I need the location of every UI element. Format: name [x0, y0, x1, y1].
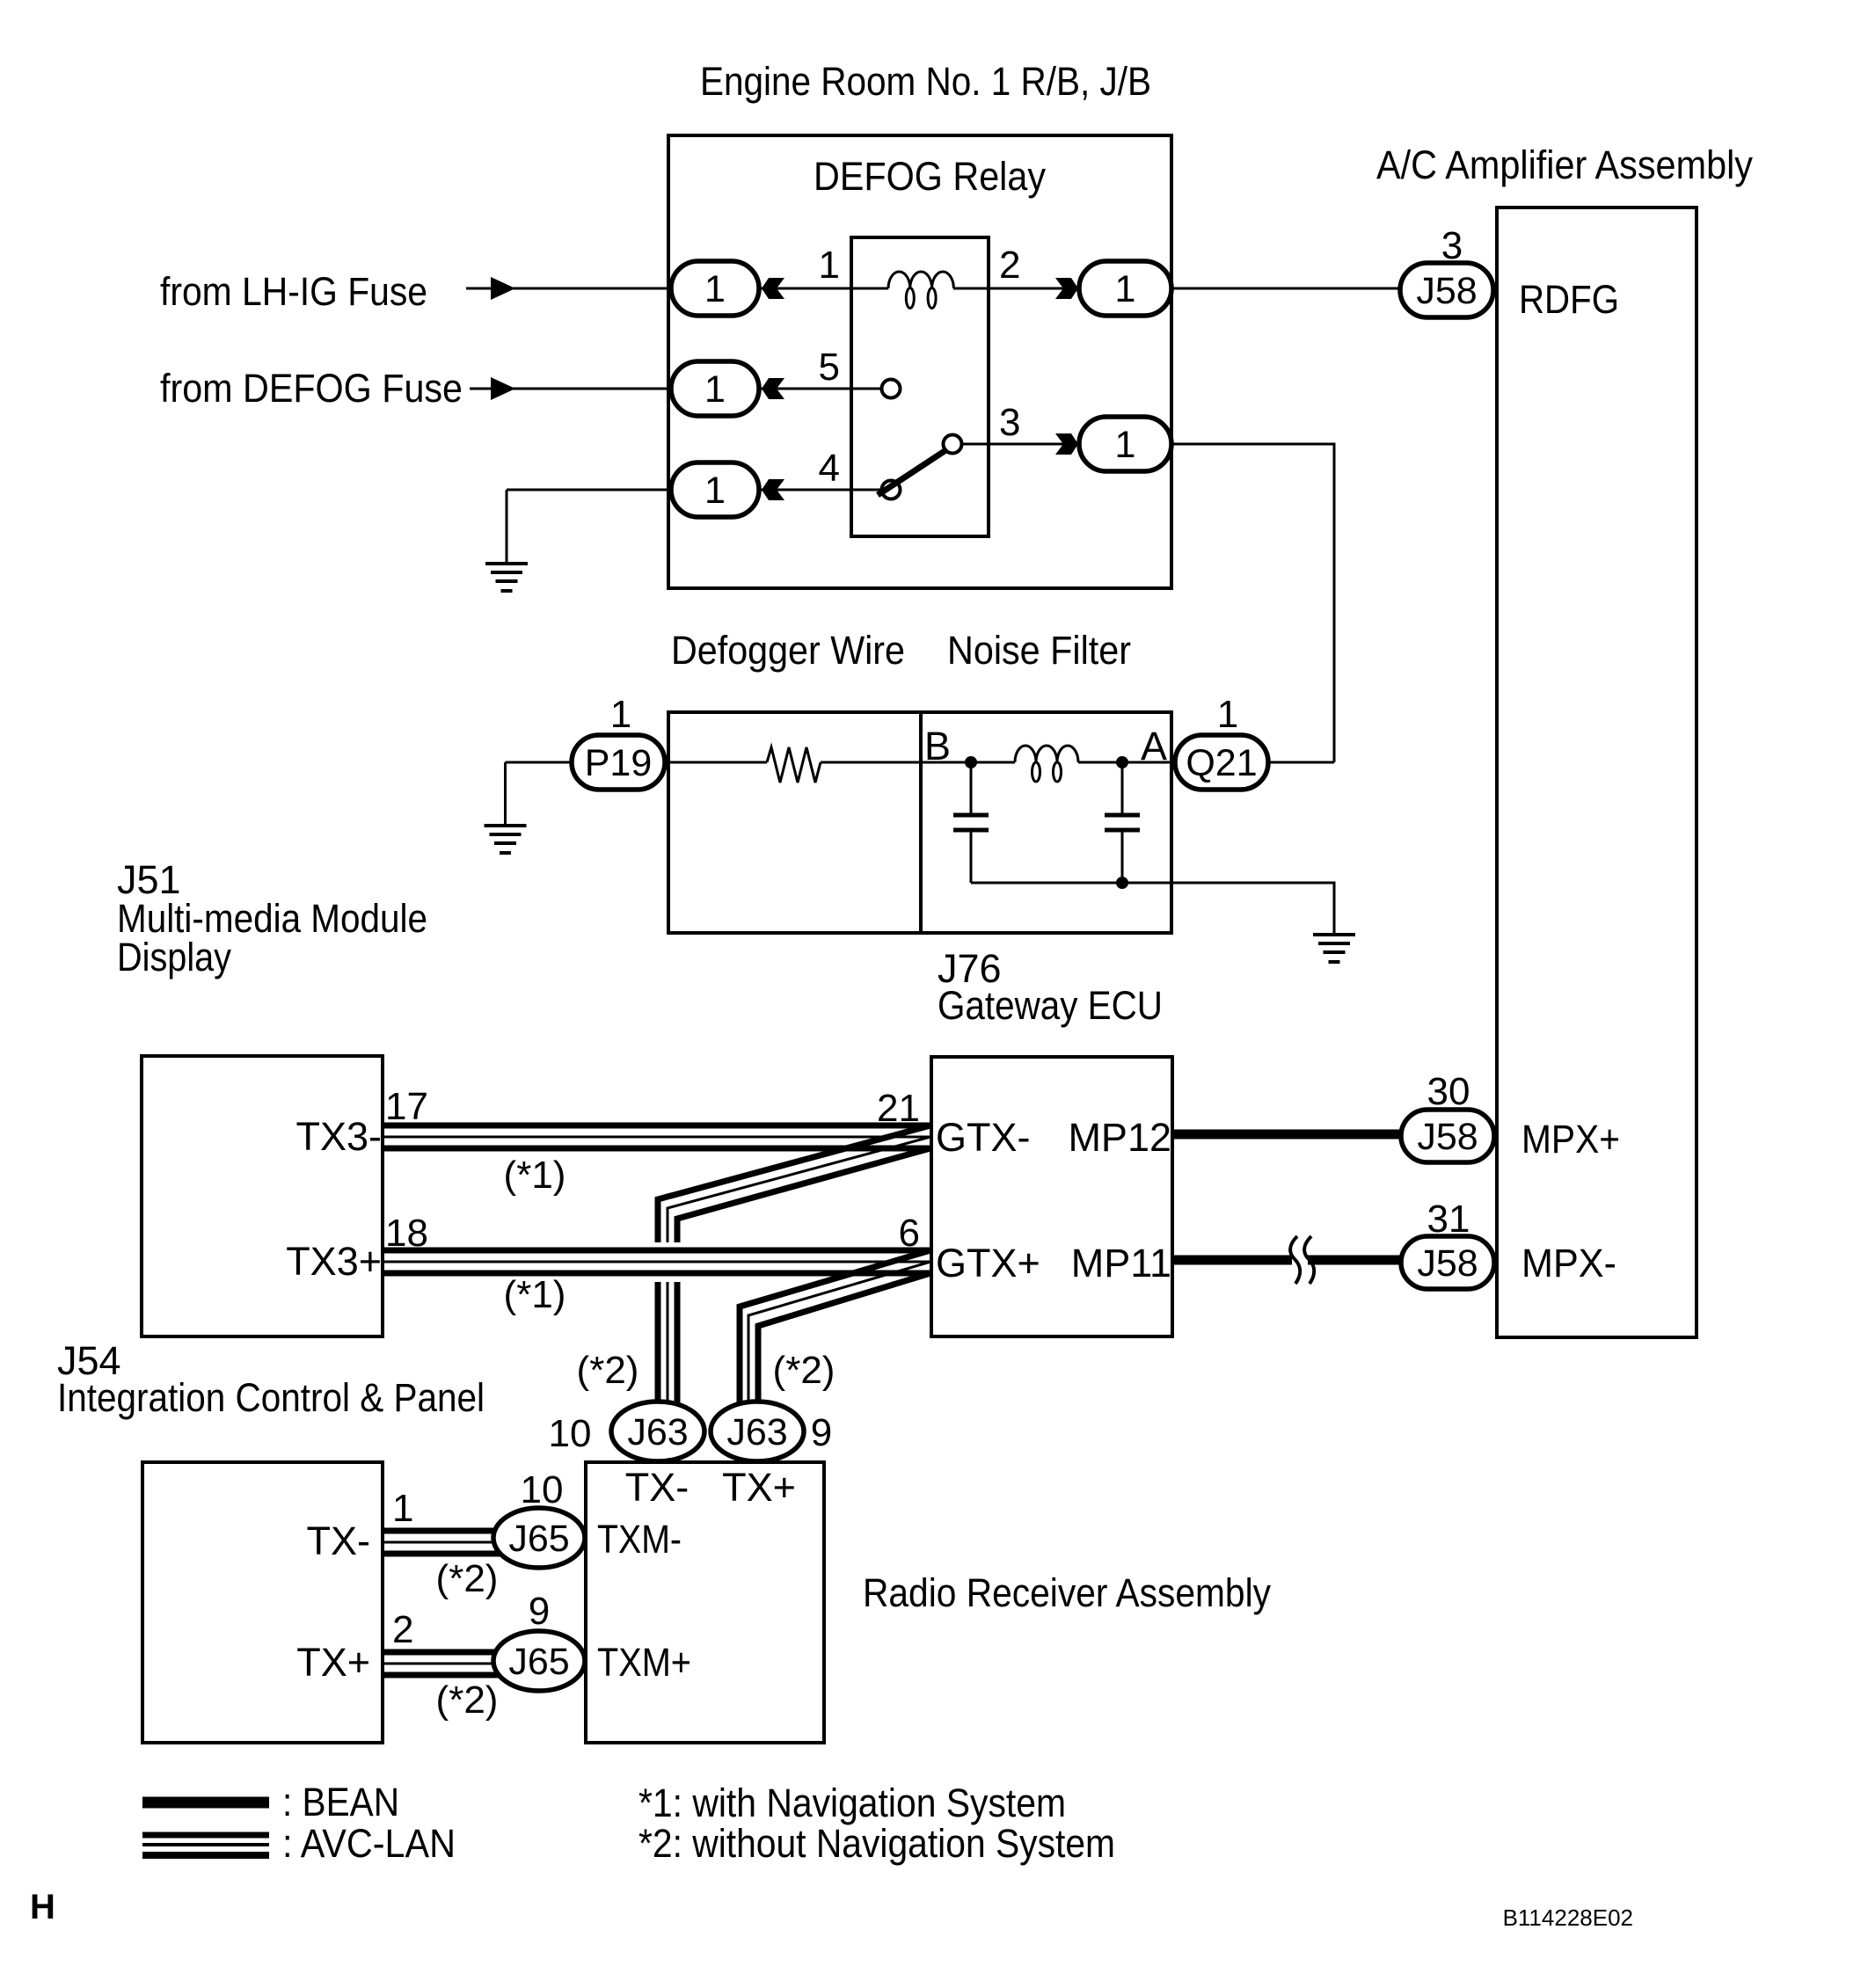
- svg-text:: AVC-LAN: : AVC-LAN: [282, 1821, 456, 1866]
- wire from DEFOG Fuse to relay pin 5 oval: [470, 388, 704, 390]
- bottom wire to ground C: [971, 883, 1334, 935]
- AVC-LAN bundle TX3+ to GTX+: [384, 1250, 930, 1273]
- svg-text:P19: P19: [585, 742, 653, 784]
- svg-text:TX3+: TX3+: [286, 1239, 382, 1284]
- BOXES: [142, 135, 1697, 1743]
- svg-text:Integration Control & Panel: Integration Control & Panel: [57, 1375, 485, 1420]
- junction node A: [1116, 756, 1128, 768]
- wire relay coil row: oval 1 to coil and coil to pin2 oval: [730, 288, 888, 290]
- wire from LH-IG Fuse to relay pin 1 oval: [466, 288, 704, 290]
- svg-text:21: 21: [877, 1087, 920, 1130]
- wire mask over J63 verticals at TX3+ crossing: [642, 1242, 688, 1282]
- svg-text:TX-: TX-: [625, 1465, 690, 1510]
- wire resistor to node B to noise filter coil: [821, 761, 1015, 764]
- svg-text:A/C Amplifier Assembly: A/C Amplifier Assembly: [1376, 142, 1753, 187]
- svg-text:MP11: MP11: [1071, 1241, 1171, 1285]
- AVC-LAN bundle TX+ to J65-9: [384, 1652, 528, 1675]
- wire pin2 oval to J58 RDFG: [1170, 288, 1442, 290]
- connector 1 relay pin1: [671, 261, 759, 316]
- arrow from DEFOG: [491, 377, 515, 400]
- box J51 Multi-media Module Display: [142, 1056, 383, 1336]
- svg-text:(*2): (*2): [436, 1679, 499, 1722]
- capacitor left: [970, 762, 973, 813]
- svg-text:3: 3: [999, 401, 1020, 444]
- wire coil to node A to Q21: [1078, 761, 1184, 764]
- connector 1 relay pin5: [671, 361, 759, 416]
- svg-text:Engine Room No. 1 R/B, J/B: Engine Room No. 1 R/B, J/B: [700, 59, 1151, 104]
- svg-text:(*1): (*1): [504, 1273, 566, 1316]
- wire oval to switch contact 5: [730, 388, 881, 390]
- svg-text:5: 5: [819, 346, 840, 389]
- capacitor right: [1121, 762, 1124, 813]
- connector J58 pin3 RDFG: [1400, 263, 1493, 317]
- relay switch contact pin5: [882, 380, 901, 398]
- ground B below P19: [485, 826, 527, 853]
- svg-text:MPX+: MPX+: [1521, 1117, 1620, 1161]
- svg-text:TX3-: TX3-: [296, 1114, 382, 1159]
- arrow into pin2 oval: [1055, 278, 1078, 299]
- connector 1 relay pin4: [671, 462, 759, 517]
- resistor in defogger wire box: [767, 747, 821, 783]
- svg-text:18: 18: [385, 1212, 428, 1255]
- relay inner coil: [888, 272, 953, 288]
- svg-text:TX+: TX+: [296, 1640, 370, 1685]
- svg-text:B114228E02: B114228E02: [1503, 1904, 1633, 1931]
- svg-text:Noise Filter: Noise Filter: [947, 628, 1131, 673]
- ground A below relay: [485, 564, 528, 591]
- wire pin3 oval right to vertical drop: [1170, 444, 1334, 762]
- wire switch contact 3 to pin3 oval: [961, 443, 1108, 446]
- svg-text:TXM-: TXM-: [597, 1517, 682, 1562]
- svg-text:1: 1: [704, 368, 726, 411]
- CONNECTOR OVALS: [493, 261, 1494, 1691]
- wire P19 left to ground B: [506, 761, 581, 764]
- wire break squiggle: [1290, 1236, 1300, 1284]
- svg-text:J63: J63: [726, 1411, 787, 1453]
- svg-text:Gateway ECU: Gateway ECU: [938, 983, 1163, 1028]
- svg-text:RDFG: RDFG: [1519, 277, 1619, 322]
- arrow from LH-IG: [491, 277, 515, 300]
- svg-text:31: 31: [1427, 1198, 1470, 1241]
- BEAN wire MP11 to J58-31 with break: [1174, 1256, 1292, 1265]
- svg-text:TXM+: TXM+: [597, 1640, 691, 1685]
- junction node B: [965, 756, 977, 768]
- svg-text:1: 1: [704, 268, 726, 310]
- svg-text:J65: J65: [508, 1518, 569, 1560]
- svg-text:B: B: [924, 724, 951, 768]
- svg-text:(*2): (*2): [577, 1349, 639, 1392]
- svg-text:9: 9: [811, 1411, 832, 1454]
- svg-text:10: 10: [521, 1468, 564, 1511]
- svg-text:1: 1: [1115, 268, 1136, 310]
- noise filter coil: [1015, 746, 1078, 762]
- svg-text:MP12: MP12: [1068, 1115, 1171, 1160]
- svg-text:(*2): (*2): [773, 1349, 835, 1392]
- svg-text:10: 10: [549, 1412, 592, 1455]
- svg-text:(*1): (*1): [504, 1154, 566, 1197]
- ground C: [1313, 935, 1355, 962]
- svg-text:J58: J58: [1417, 1242, 1478, 1285]
- svg-text:4: 4: [819, 447, 840, 490]
- AVC-LAN bundle J63-9 to GTX+: [740, 1250, 930, 1419]
- relay switch contact pin4: [882, 481, 901, 499]
- svg-text:Radio Receiver Assembly: Radio Receiver Assembly: [863, 1570, 1271, 1615]
- svg-text:Display: Display: [117, 935, 231, 979]
- svg-text:TX+: TX+: [722, 1465, 796, 1510]
- relay switch arm: [878, 449, 947, 495]
- svg-text:TX-: TX-: [307, 1518, 371, 1563]
- svg-text:2: 2: [999, 244, 1020, 287]
- connector J63 pin10: [611, 1402, 704, 1461]
- connector 1 relay pin2: [1079, 261, 1171, 316]
- box Defogger Wire / Noise Filter (J76): [668, 712, 1171, 933]
- connector J58 pin31: [1401, 1236, 1494, 1289]
- wire Q21 to corner: [1259, 761, 1334, 764]
- box J54 lower: [142, 1462, 383, 1743]
- box Radio Receiver Assembly: [586, 1462, 824, 1743]
- wire P19 to resistor: [656, 761, 767, 764]
- divider defogger/noise: [919, 712, 923, 933]
- AVC-LAN bundle J63-10 to GTX-: [658, 1125, 930, 1419]
- box relay inner: [851, 237, 989, 536]
- svg-text:1: 1: [392, 1487, 413, 1530]
- svg-text:MPX-: MPX-: [1521, 1241, 1616, 1285]
- svg-text:1: 1: [819, 244, 840, 287]
- svg-text:J58: J58: [1416, 270, 1477, 312]
- BEAN wire MP12 to J58-30: [1174, 1130, 1416, 1140]
- svg-text:Q21: Q21: [1186, 742, 1257, 784]
- svg-text:from DEFOG Fuse: from DEFOG Fuse: [160, 366, 463, 411]
- svg-text:(*2): (*2): [436, 1557, 499, 1600]
- connector 1 relay pin3: [1079, 417, 1171, 471]
- svg-text:J65: J65: [508, 1641, 569, 1683]
- connector Q21: [1175, 735, 1268, 790]
- svg-text:J63: J63: [627, 1411, 688, 1453]
- svg-text:17: 17: [385, 1085, 428, 1128]
- svg-text:3: 3: [1441, 224, 1463, 267]
- svg-text:H: H: [30, 1888, 55, 1926]
- svg-text:*2: without Navigation System: *2: without Navigation System: [638, 1821, 1115, 1866]
- svg-text:Defogger Wire: Defogger Wire: [671, 628, 905, 673]
- svg-text:1: 1: [610, 693, 631, 736]
- connector J65 pin10: [493, 1508, 585, 1568]
- AVC-LAN bundle TX3- to GTX-: [384, 1125, 930, 1148]
- svg-text:1: 1: [1217, 693, 1238, 736]
- svg-text:1: 1: [1115, 424, 1136, 466]
- arrow into pin5 oval: [762, 378, 784, 399]
- legend BEAN sample: [142, 1797, 269, 1809]
- svg-text:from LH-IG Fuse: from LH-IG Fuse: [160, 269, 427, 314]
- arrow into pin3 oval: [1055, 433, 1078, 455]
- legend AVC-LAN sample: [142, 1835, 269, 1855]
- connector J63 pin9: [711, 1402, 804, 1461]
- connector J58 pin30: [1401, 1110, 1494, 1162]
- box A/C Amplifier Assembly: [1497, 208, 1697, 1337]
- arrow into pin1 oval: [762, 278, 784, 299]
- svg-text:2: 2: [392, 1608, 413, 1651]
- junction bottom right cap: [1116, 877, 1128, 889]
- svg-text:: BEAN: : BEAN: [282, 1780, 399, 1824]
- connector P19: [572, 735, 665, 790]
- svg-text:GTX-: GTX-: [936, 1115, 1031, 1160]
- box Engine Room No.1 R/B J/B (DEFOG relay outer): [668, 135, 1171, 588]
- connector J65 pin9: [493, 1631, 585, 1691]
- svg-text:1: 1: [704, 470, 726, 512]
- svg-text:*1: with Navigation System: *1: with Navigation System: [638, 1780, 1066, 1825]
- AVC-LAN bundle TX- to J65-10: [384, 1531, 528, 1554]
- relay switch contact pin3: [944, 435, 962, 454]
- svg-text:9: 9: [529, 1590, 550, 1633]
- arrow into pin4 oval: [762, 479, 784, 500]
- wire oval to switch contact 4: [730, 489, 881, 492]
- svg-text:DEFOG Relay: DEFOG Relay: [814, 154, 1046, 199]
- svg-text:6: 6: [899, 1212, 920, 1255]
- svg-text:J58: J58: [1417, 1116, 1478, 1158]
- wire ground to relay pin 4 oval: [507, 489, 704, 492]
- box Gateway ECU GTX: [931, 1057, 1172, 1336]
- svg-text:A: A: [1141, 724, 1167, 768]
- svg-text:GTX+: GTX+: [936, 1241, 1040, 1285]
- svg-text:30: 30: [1427, 1070, 1470, 1113]
